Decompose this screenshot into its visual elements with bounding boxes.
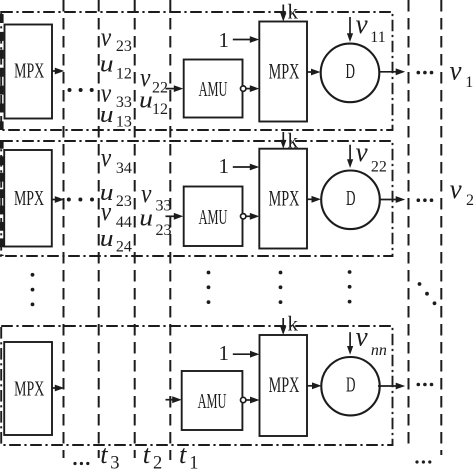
initial value v22 arrow (row 2) — [347, 145, 353, 168]
row 2 multi-input bus marks (left edge) — [0, 140, 4, 256]
vertical ellipsis under AMU column — [207, 271, 211, 304]
row 1 multi-input bus marks (left edge) — [0, 14, 4, 130]
initial value label vnn (row 3) — [356, 322, 387, 360]
svg-text:44: 44 — [116, 214, 132, 231]
svg-text:3: 3 — [110, 454, 119, 474]
vertical ellipsis under delay D column — [348, 270, 352, 303]
delay element D (row 2) — [321, 171, 380, 230]
ellipsis dots (row 1 left) — [68, 88, 94, 92]
wire AMU to MPX (row 3) — [246, 397, 260, 404]
output wire of row 1 — [379, 68, 405, 75]
svg-text:1: 1 — [219, 154, 230, 178]
vertical dashed output line (outer right) — [440, 0, 442, 455]
wire MPX to delay D (row 1) — [307, 69, 321, 76]
arithmetic unit AMU (row 1) — [184, 60, 243, 118]
svg-text:23: 23 — [156, 222, 172, 239]
inverting bubble on AMU output (row 1) — [241, 86, 246, 91]
svg-text:33: 33 — [116, 94, 132, 111]
svg-text:AMU: AMU — [199, 77, 228, 102]
wire MPX out (row 1) — [52, 68, 64, 75]
vertical dashed time line t1 — [169, 0, 171, 460]
svg-text:v: v — [101, 23, 111, 51]
svg-text:u: u — [139, 204, 153, 231]
svg-text:1: 1 — [219, 28, 230, 52]
node label u23 (row 2) — [100, 179, 132, 210]
ellipsis dots (bottom right) — [415, 460, 431, 463]
row 3 dash-dot processing-element boundary — [1, 326, 392, 445]
svg-text:u: u — [100, 101, 114, 128]
svg-text:AMU: AMU — [198, 388, 227, 413]
initial value vnn arrow (row 3) — [347, 332, 353, 355]
svg-text:v: v — [356, 322, 368, 352]
output label v2 (row 2) — [450, 174, 474, 209]
wire constant 1 into MPX (row 1) — [233, 36, 259, 43]
svg-text:1: 1 — [465, 74, 473, 91]
svg-text:33: 33 — [156, 198, 172, 215]
initial value label v11 (row 1) — [356, 9, 386, 46]
node label u23 second (row 2) — [139, 204, 171, 239]
svg-text:u: u — [100, 225, 114, 252]
svg-text:MPX: MPX — [14, 59, 44, 83]
diagonal ellipsis (bottom right of array) — [418, 282, 437, 305]
ellipsis dots (row 1 right) — [417, 71, 434, 75]
control input k arrow (row 3) — [280, 318, 286, 335]
svg-text:k: k — [288, 129, 299, 153]
svg-text:MPX: MPX — [269, 373, 300, 398]
multiplexer MPX (row 2 input) — [4, 150, 52, 247]
control input k arrow (row 2) — [280, 132, 286, 149]
wire MPX out (row 3) — [52, 385, 64, 392]
ellipsis dots (row 2 left) — [67, 198, 94, 202]
output label v1 (row 1) — [450, 56, 474, 92]
svg-text:MPX: MPX — [14, 186, 44, 210]
svg-text:MPX: MPX — [269, 59, 300, 84]
multiplexer MPX (row 3 input) — [4, 342, 52, 435]
multiplexer MPX (row 1 input) — [5, 25, 53, 119]
arithmetic unit AMU (row 2) — [184, 187, 243, 247]
wire AMU to MPX (row 2) — [246, 213, 259, 220]
svg-text:v: v — [356, 9, 368, 39]
svg-text:v: v — [101, 144, 111, 172]
svg-text:2: 2 — [466, 192, 474, 209]
ellipsis dots (row 2 right) — [417, 198, 434, 202]
multiplexer MPX (row 1 output select) — [259, 22, 307, 122]
wire into AMU (row 2) — [166, 213, 184, 220]
node label u13 (row 1) — [100, 101, 132, 131]
svg-text:AMU: AMU — [199, 204, 228, 229]
node label u12 (row 1) — [100, 50, 132, 82]
node label v44 (row 2) — [101, 198, 132, 231]
row 1 dash-dot processing-element boundary — [1, 12, 392, 130]
svg-text:v: v — [101, 198, 111, 226]
vertical dashed time line t3 — [98, 0, 100, 458]
time label t2 — [143, 439, 162, 474]
svg-text:v: v — [450, 56, 462, 86]
inverting bubble on AMU output (row 3) — [241, 397, 246, 402]
svg-text:v: v — [450, 174, 462, 204]
wire constant 1 into MPX (row 2) — [233, 164, 259, 171]
wire MPX to delay D (row 3) — [307, 382, 322, 389]
vertical ellipsis under output MPX column — [279, 271, 283, 304]
wire MPX out (row 2) — [52, 196, 65, 203]
wire MPX to delay D (row 2) — [307, 196, 321, 203]
svg-text:t: t — [179, 439, 187, 469]
svg-text:t: t — [100, 439, 108, 469]
time label t1 — [179, 439, 198, 474]
ellipsis dots (bottom left) — [73, 462, 89, 465]
wire AMU to MPX (row 1) — [246, 85, 259, 92]
svg-text:22: 22 — [371, 159, 387, 176]
svg-text:u: u — [100, 50, 114, 77]
svg-text:v: v — [356, 137, 368, 167]
vertical dashed time line t2 — [134, 0, 136, 458]
multiplexer MPX (row 2 output select) — [259, 149, 307, 249]
svg-text:k: k — [288, 0, 299, 24]
wire into AMU (row 3) — [166, 396, 182, 403]
vertical ellipsis under input MPX column — [31, 273, 35, 306]
inverting bubble on AMU output (row 2) — [241, 214, 246, 219]
svg-text:12: 12 — [152, 101, 168, 118]
control input k arrow (row 1) — [280, 5, 286, 22]
node label u12 second (row 1) — [139, 86, 168, 118]
node label u24 (row 2) — [100, 225, 132, 256]
wire into AMU (row 1) — [166, 85, 184, 92]
svg-text:12: 12 — [116, 66, 132, 83]
vertical dashed output line (inner right) — [408, 0, 410, 450]
node label v34 (row 2) — [101, 144, 132, 177]
vertical dashed time line (left of dots column) — [63, 0, 65, 458]
svg-text:D: D — [345, 59, 355, 83]
node label v33 (row 1) — [101, 80, 132, 111]
svg-text:MPX: MPX — [269, 186, 300, 211]
svg-text:1: 1 — [219, 341, 230, 365]
arithmetic unit AMU (row 3) — [182, 371, 243, 430]
delay element D (row 1) — [321, 44, 380, 103]
initial value v11 arrow (row 1) — [347, 17, 353, 42]
svg-text:1: 1 — [189, 454, 198, 474]
output wire of row 3 — [378, 383, 405, 390]
svg-text:nn: nn — [371, 342, 387, 359]
svg-text:34: 34 — [116, 160, 132, 177]
svg-text:23: 23 — [116, 193, 132, 210]
multiplexer MPX (row 3 output select) — [260, 335, 308, 436]
svg-text:k: k — [288, 312, 299, 336]
delay element D (row 3) — [321, 357, 379, 415]
svg-text:D: D — [346, 372, 356, 396]
svg-text:u: u — [139, 86, 153, 113]
row 2 dash-dot processing-element boundary — [1, 141, 392, 256]
svg-text:11: 11 — [370, 29, 385, 46]
ellipsis dots (row 3 right) — [417, 383, 434, 387]
output wire of row 2 — [380, 196, 406, 203]
node label v33 (row 2) — [141, 180, 172, 215]
svg-text:MPX: MPX — [14, 376, 44, 400]
initial value label v22 (row 2) — [356, 137, 387, 176]
time label t3 — [100, 439, 119, 474]
svg-text:2: 2 — [153, 454, 162, 474]
wire constant 1 into MPX (row 3) — [233, 351, 260, 358]
svg-text:24: 24 — [116, 239, 132, 256]
svg-text:13: 13 — [116, 114, 132, 131]
svg-text:D: D — [346, 186, 356, 210]
svg-text:23: 23 — [116, 38, 132, 55]
node label v23 (row 1) — [101, 23, 132, 55]
node label v22 (row 1) — [140, 64, 168, 97]
svg-text:t: t — [143, 439, 151, 469]
